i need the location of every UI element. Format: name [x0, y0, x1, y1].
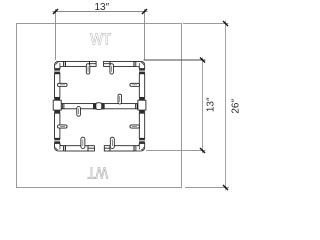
clip tab bottom rail right (pointing up) [110, 137, 114, 148]
middle rail left piece [61, 104, 93, 109]
left rail lower segment [55, 113, 60, 138]
clip tab left rail upper (pointing right) [58, 83, 68, 86]
clip tab middle rail up [118, 94, 122, 104]
right 26in dimension tick bottom [223, 185, 228, 190]
right rail tee collar top flange [139, 97, 145, 100]
center coupler right flange [102, 103, 105, 109]
clip tab left rail lower (pointing right) [58, 125, 68, 128]
right 13in dimension tick bottom [200, 148, 205, 153]
top rail left end bracket [90, 61, 97, 66]
bottom rail left end bracket [88, 146, 94, 151]
right 13in dimension line [202, 58, 204, 154]
bottom-right flange pair [139, 138, 145, 143]
top dimension extension line left [55, 9, 57, 60]
left rail tee collar top flange [54, 97, 60, 100]
corner elbow bottom-right [134, 143, 145, 151]
right 13in dimension top extension line [144, 59, 206, 61]
right rail tee collar body [138, 100, 146, 110]
clip tab right rail upper (pointing left) [130, 83, 140, 86]
bottom-left corner cap lines [63, 146, 65, 151]
right 13in dimension tick top [200, 58, 205, 63]
clip tab bottom rail left (pointing up) [81, 137, 85, 148]
bottom-left flange pair [54, 138, 60, 143]
right rail tee collar bottom flange [139, 110, 145, 113]
bottom rail left piece [65, 146, 88, 151]
corner elbow top-left [55, 61, 66, 68]
clip tab top rail right (hanging down) [110, 64, 114, 74]
corner elbow top-right [134, 61, 145, 68]
top dimension tick left [53, 9, 58, 14]
middle rail right piece [104, 104, 138, 109]
top dimension line 13in [53, 11, 148, 13]
center coupler cylinder [96, 103, 102, 110]
right 26in dimension tick top [223, 21, 228, 26]
left rail upper segment [55, 74, 60, 98]
left rail tee collar bottom flange [54, 110, 60, 113]
wall outline square 26x26 [17, 24, 182, 188]
bottom rail right piece [110, 146, 134, 151]
top dimension tick right [142, 9, 147, 14]
right 13in dimension bottom extension line [146, 150, 206, 152]
svg-text:WT: WT [90, 31, 111, 48]
left rail tee collar body [53, 100, 61, 110]
corner elbow bottom-left [55, 143, 66, 151]
top-left corner cap lines [63, 61, 65, 66]
top rail right piece [110, 61, 134, 66]
right 26in dimension top extension line [183, 23, 229, 25]
top rail right end bracket [104, 61, 111, 66]
top dimension extension line right [144, 9, 146, 60]
clip tab right rail lower (pointing left) [130, 125, 140, 128]
top-right flange pair [139, 69, 145, 74]
bottom-right corner cap lines [133, 146, 135, 151]
svg-text:26″: 26″ [231, 99, 242, 114]
top rail left piece [65, 61, 89, 66]
middle rail right cap lines [135, 104, 137, 109]
svg-text:13″: 13″ [94, 2, 109, 13]
right rail upper segment [139, 74, 144, 98]
right rail lower segment [139, 113, 144, 138]
middle rail left cap lines [61, 104, 63, 109]
clip tab top rail left (hanging down) [86, 64, 90, 74]
svg-text:13″: 13″ [206, 97, 217, 112]
top-right corner cap lines [133, 61, 135, 66]
svg-text:WT: WT [87, 164, 108, 181]
top-left flange pair [54, 69, 60, 74]
right 26in dimension line [225, 21, 227, 191]
bottom rail right end bracket [104, 146, 110, 151]
clip tab middle rail down [77, 107, 81, 117]
right 26in dimension bottom extension line [185, 187, 229, 189]
center coupler left flange [93, 103, 96, 109]
